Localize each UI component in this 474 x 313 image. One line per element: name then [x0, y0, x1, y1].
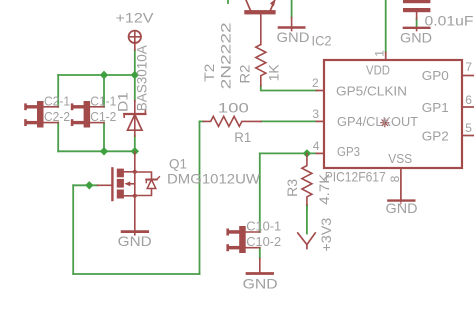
svg-text:8: 8: [388, 175, 402, 182]
wire 0.01uF cap to gnd green part: [416, 19, 418, 28]
svg-text:R3: R3: [284, 179, 300, 197]
wire C1 vertical upper: [103, 75, 105, 107]
resistor R2: [256, 45, 266, 87]
pin 5 stub: [462, 135, 474, 137]
svg-text:DMG1012UW: DMG1012UW: [167, 171, 261, 187]
svg-text:C10-1: C10-1: [246, 219, 281, 234]
wire T2 emitter gnd from top edge: [291, 0, 293, 18]
wire pin4 net down to C10 pin1: [259, 153, 261, 232]
svg-text:0.01uF: 0.01uF: [425, 13, 474, 29]
svg-text:C2-1: C2-1: [44, 93, 70, 108]
pin 7 stub: [462, 75, 474, 77]
junction node gate wire: [85, 181, 93, 189]
svg-text:C10-2: C10-2: [246, 234, 281, 249]
svg-text:R2: R2: [237, 64, 253, 83]
wire R1 left corner: [200, 120, 204, 122]
wire R3 bottom to arrow: [306, 205, 308, 234]
svg-text:D1: D1: [115, 92, 131, 112]
supply arrow +3V3: [298, 233, 315, 249]
IC2 origin star: [381, 119, 389, 127]
svg-text:GND: GND: [386, 200, 418, 216]
ground Q1: [122, 230, 148, 233]
svg-text:GP1: GP1: [422, 100, 449, 115]
svg-text:100: 100: [218, 99, 249, 115]
supply symbol +12V: [129, 31, 141, 50]
ground C10: [247, 272, 273, 275]
wire top rail: [58, 74, 135, 76]
mosfet Q1 DMG1012UW: [98, 152, 160, 235]
C1 pin2 line: [90, 122, 104, 124]
wire D1 cathode to bottom rail: [134, 136, 136, 152]
wire R1 to IC pin3: [261, 120, 317, 122]
wire bottom rail: [58, 150, 135, 152]
svg-text:T2: T2: [201, 63, 217, 81]
junction node bottom rail / C1: [100, 147, 108, 155]
wire C1 vertical lower: [103, 123, 105, 152]
pin 1 stub VDD: [385, 53, 387, 61]
svg-text:C1-2: C1-2: [90, 109, 116, 124]
wire gate net horizontal: [73, 184, 97, 186]
svg-text:VDD: VDD: [366, 63, 390, 78]
red pin stub +12V lower: [134, 152, 136, 156]
C10 pin2 line: [246, 247, 260, 249]
wire gate loop left vertical: [72, 185, 74, 274]
svg-text:GP3: GP3: [337, 144, 360, 159]
svg-text:+3V3: +3V3: [318, 217, 334, 251]
svg-text:2: 2: [312, 76, 319, 90]
wire R2 bottom corner: [261, 86, 317, 91]
wire C2 vertical lower: [57, 123, 59, 152]
wire stub top edge collector net: [227, 0, 229, 3]
svg-text:1K: 1K: [265, 64, 281, 82]
svg-text:C1-1: C1-1: [90, 93, 116, 108]
resistor R1: [204, 116, 262, 126]
svg-text:R1: R1: [234, 129, 251, 145]
pin 8 stub VSS: [400, 168, 402, 201]
svg-text:PIC12F617: PIC12F617: [325, 169, 386, 185]
wire top rail to D1 anode: [134, 75, 136, 101]
wire IC pin4 horizontal: [260, 152, 317, 154]
svg-text:BAS3010A: BAS3010A: [134, 45, 150, 112]
ground 0.01uF: [404, 28, 429, 31]
wire R3 lead green part: [306, 205, 308, 210]
pin 6 stub: [462, 106, 474, 108]
IC2 PIC12F617 box: [324, 60, 462, 168]
svg-text:3: 3: [312, 107, 319, 121]
svg-text:GP4/CLKOUT: GP4/CLKOUT: [337, 114, 418, 129]
svg-text:Q1: Q1: [169, 156, 187, 172]
junction node pin4 / R3: [303, 149, 311, 157]
C2 pin2 line: [44, 122, 59, 124]
svg-text:4.7K: 4.7K: [316, 173, 332, 205]
svg-text:GP5/CLKIN: GP5/CLKIN: [336, 83, 407, 98]
wire C2 vertical upper: [57, 75, 59, 107]
svg-text:GP0: GP0: [422, 68, 449, 83]
capacitor pad C1: [71, 101, 90, 128]
svg-text:7: 7: [465, 60, 472, 74]
svg-text:GND: GND: [243, 276, 278, 292]
wire +12V to top rail: [134, 50, 136, 76]
resistor R3: [302, 153, 312, 205]
svg-text:4: 4: [313, 139, 320, 153]
svg-text:IC2: IC2: [312, 33, 332, 49]
C10 pin1 line: [246, 231, 260, 233]
transistor T2 2N2222: [244, 0, 275, 45]
svg-text:GND: GND: [118, 233, 152, 249]
svg-text:+12V: +12V: [116, 10, 155, 26]
svg-text:GND: GND: [400, 30, 432, 46]
ground T2: [279, 18, 304, 31]
0.01uF lead: [416, 12, 418, 19]
junction node top rail / D1 column: [131, 71, 139, 79]
capacitor pad C2: [24, 101, 43, 128]
ground VSS: [388, 201, 414, 204]
junction node top rail / C1: [100, 71, 108, 79]
svg-text:VSS: VSS: [388, 151, 412, 166]
svg-text:5: 5: [465, 121, 472, 135]
wire gate loop right vertical to R1: [199, 121, 201, 274]
svg-text:GP2: GP2: [422, 129, 449, 144]
svg-text:1: 1: [373, 50, 387, 57]
C2 pin1 line: [44, 106, 59, 108]
svg-text:GND: GND: [277, 29, 310, 45]
wire gate loop bottom: [73, 273, 199, 275]
pin 3 stub: [317, 120, 325, 122]
wire C10 pin2 to gnd red part: [259, 259, 261, 273]
capacitor 0.01uF top right: [403, 0, 430, 12]
capacitor pad C10: [226, 226, 245, 253]
wire C10 pin2 down: [259, 248, 261, 259]
wire VDD from top edge: [385, 0, 387, 53]
pin 2 stub: [317, 90, 325, 92]
junction node bottom rail / drain: [131, 147, 139, 155]
svg-text:6: 6: [465, 93, 472, 107]
pin 4 stub: [317, 152, 325, 154]
diode D1 BAS3010A: [124, 101, 145, 137]
svg-text:2N2222: 2N2222: [218, 22, 234, 89]
svg-text:C2-2: C2-2: [44, 109, 70, 124]
C1 pin1 line: [90, 106, 104, 108]
